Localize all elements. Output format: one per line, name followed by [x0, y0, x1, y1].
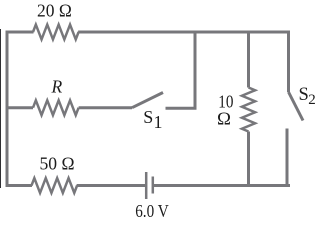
wire: 10 Ohm branch top lead	[247, 31, 250, 88]
wire: bottom horizontal right of battery	[154, 184, 290, 187]
svg-text:20 Ω: 20 Ω	[37, 0, 72, 20]
switch S1 blade	[132, 93, 163, 108]
svg-text:2: 2	[308, 92, 316, 108]
wire: middle branch from R to switch S1	[79, 106, 132, 109]
wire: bottom horizontal between 50 Ohm and battery	[77, 184, 146, 187]
svg-text:50 Ω: 50 Ω	[40, 154, 75, 174]
switch S2 blade	[289, 92, 304, 121]
svg-text:Ω: Ω	[217, 109, 231, 129]
wire: 10 Ohm branch bottom lead	[247, 132, 250, 188]
wire: middle branch right segment	[166, 107, 197, 110]
resistor R zigzag	[33, 100, 79, 115]
wire: left edge scan artifact	[0, 29, 2, 188]
svg-text:R: R	[51, 76, 63, 96]
battery B1 long plate	[145, 172, 148, 199]
resistor 50 Ohm zigzag	[32, 178, 78, 193]
svg-text:1: 1	[154, 112, 163, 132]
svg-text:S: S	[143, 107, 153, 127]
svg-text:6.0 V: 6.0 V	[135, 201, 169, 221]
wire: bottom horizontal left lead	[6, 184, 33, 187]
battery B1 short plate	[152, 177, 155, 194]
wire: right vertical bottom (S2 lower terminal)	[286, 129, 289, 188]
svg-text:S: S	[299, 85, 309, 105]
wire: middle branch left lead	[6, 106, 34, 109]
wire: vertical from S1 branch up to top wire	[194, 31, 197, 109]
resistor 10 Ohm vertical zigzag	[242, 88, 255, 132]
wire: left vertical	[6, 31, 9, 188]
resistor 20 Ohm zigzag	[33, 25, 79, 40]
wire: right vertical top (S2 upper terminal)	[287, 31, 290, 93]
wire: top horizontal left lead	[6, 31, 34, 34]
wire: top horizontal right of 20 Ohm	[78, 31, 290, 34]
